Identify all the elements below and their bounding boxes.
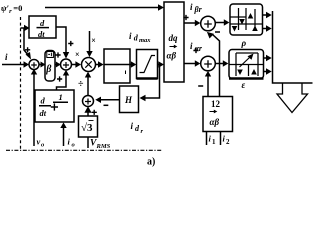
svg-text:ρ: ρ — [241, 38, 247, 48]
svg-text:βr: βr — [194, 5, 203, 14]
svg-text:i: i — [190, 2, 193, 12]
minus sign sum3 right — [104, 104, 109, 106]
input i label — [5, 52, 8, 62]
svg-text:o: o — [72, 142, 76, 149]
svg-text:v: v — [37, 137, 41, 147]
svg-text:αβ: αβ — [210, 117, 220, 127]
label i_dr — [131, 121, 144, 135]
wire sum5 to hysteresis block e — [215, 63, 223, 65]
feedback wire i2 to sum5 — [207, 76, 209, 97]
wire V_RMS stub — [87, 137, 89, 148]
output arrows block2 to bus — [264, 57, 267, 59]
summing junction sum2 — [61, 59, 72, 70]
svg-text:H: H — [124, 95, 133, 105]
bus vertical and horizontal — [273, 11, 313, 83]
wire d/dt output to sum2 top — [56, 27, 66, 53]
sqrt3 block — [79, 116, 98, 137]
wire box to saturation — [130, 64, 131, 66]
output arrows block1 to bus — [263, 14, 267, 16]
transfer fn block d/dt + 1 — [35, 90, 74, 122]
svg-text:dq: dq — [169, 33, 179, 43]
svg-text:i: i — [190, 41, 193, 51]
divide label — [78, 79, 84, 90]
svg-text:i: i — [129, 31, 132, 41]
svg-text:RMS: RMS — [96, 143, 111, 150]
feedback wire i1 to sum4 — [212, 34, 220, 97]
plus sign sum2 top — [68, 41, 73, 46]
wire top theta to dq block — [45, 7, 158, 9]
controller block H — [120, 86, 139, 113]
wire dq out alpha to sum5 — [184, 63, 195, 65]
minus sign sum4 bottom — [215, 31, 220, 33]
svg-text:i: i — [5, 52, 8, 62]
labels v_o and i_o — [37, 137, 76, 149]
saturation block — [137, 50, 158, 79]
svg-text:12: 12 — [211, 99, 221, 109]
svg-text:a): a) — [147, 157, 155, 168]
multiplier divider circle — [82, 58, 96, 72]
transform block dq to alphabeta — [164, 2, 184, 82]
plus sign sum2 left — [55, 52, 60, 57]
wire dangling multiply input — [89, 31, 91, 52]
wire sum4 to hysteresis block p — [215, 22, 224, 24]
wire multiplier to limiter box — [96, 64, 99, 66]
dashed boundary vertical — [20, 17, 22, 150]
node psi_r = 0 label — [1, 3, 22, 15]
label i_dmax — [129, 31, 151, 44]
hysteresis comparator block 1 — [230, 4, 263, 35]
wire sum3 up to divide input — [87, 77, 89, 96]
wire branch down to sum1 — [24, 28, 29, 56]
label V_RMS — [90, 139, 111, 151]
summing junction sum1 — [29, 60, 39, 70]
big hollow output arrow — [277, 83, 308, 113]
svg-text:αr: αr — [195, 44, 203, 53]
hysteresis comparator block 2 — [229, 50, 264, 79]
label i_alphar — [190, 41, 203, 53]
gain block beta — [45, 51, 55, 82]
svg-text:×: × — [75, 50, 80, 59]
caption a) — [147, 157, 155, 168]
wire into d/dt — [21, 27, 25, 29]
summing junction sum3 — [83, 96, 94, 107]
svg-text:dt: dt — [40, 108, 47, 118]
wire tf block to sum2 bottom — [57, 75, 67, 90]
wire sum1 to beta — [39, 64, 42, 66]
wire sqrt3 to sum3 — [87, 113, 89, 117]
label i_betar — [190, 2, 203, 14]
wire H to sum3 — [101, 99, 120, 101]
times label left input — [75, 50, 80, 59]
wire i_o into tf block — [63, 128, 65, 147]
transform block 12 to alphabeta — [203, 97, 233, 132]
plus sign sum4 left — [183, 15, 188, 20]
svg-text:ε: ε — [242, 80, 246, 90]
wire dq out beta to sum4 — [184, 22, 195, 24]
limiter box with midline — [104, 49, 130, 83]
svg-text:dt: dt — [38, 29, 45, 39]
wire saturation to dq block — [158, 64, 159, 66]
wire sum2 to multiplier — [72, 64, 77, 66]
svg-text:d: d — [40, 18, 45, 28]
svg-text:i: i — [131, 121, 134, 131]
svg-text:o: o — [41, 142, 45, 149]
input stubs i1 i2 — [206, 132, 208, 146]
svg-text:αβ: αβ — [167, 51, 177, 61]
derivative block d/dt — [29, 16, 56, 38]
label epsilon — [242, 80, 246, 90]
svg-text:1: 1 — [212, 138, 216, 146]
wire branch down to H — [145, 65, 160, 99]
summing junction sum5 — [201, 56, 216, 71]
minus sign sum5 bottom — [198, 85, 203, 87]
times label top input — [91, 36, 96, 45]
plus sign sum2 bottom — [57, 76, 62, 81]
svg-text:max: max — [139, 37, 151, 44]
wire v_o up to sum1 — [33, 74, 35, 146]
svg-text:r: r — [141, 128, 144, 135]
label rho — [241, 38, 247, 48]
svg-text:d: d — [41, 96, 46, 106]
svg-text:d: d — [135, 124, 140, 133]
svg-text:2: 2 — [226, 138, 230, 146]
svg-text:β: β — [45, 64, 52, 75]
plus sign sum5 left — [193, 48, 198, 53]
svg-text:√3: √3 — [81, 122, 93, 134]
svg-text:×: × — [91, 36, 96, 45]
svg-text:1: 1 — [59, 92, 63, 102]
wire input i — [2, 64, 24, 66]
plus sign sum3 bottom — [92, 110, 97, 115]
dash-dot boundary bottom — [6, 149, 162, 151]
summing junction sum4 — [201, 16, 216, 31]
svg-text:÷: ÷ — [78, 79, 84, 90]
plus sign sum1 top — [25, 47, 30, 52]
wire beta to sum2 — [55, 64, 57, 66]
svg-text:ψ′r =0: ψ′r =0 — [1, 3, 22, 15]
svg-text:i: i — [68, 137, 71, 147]
